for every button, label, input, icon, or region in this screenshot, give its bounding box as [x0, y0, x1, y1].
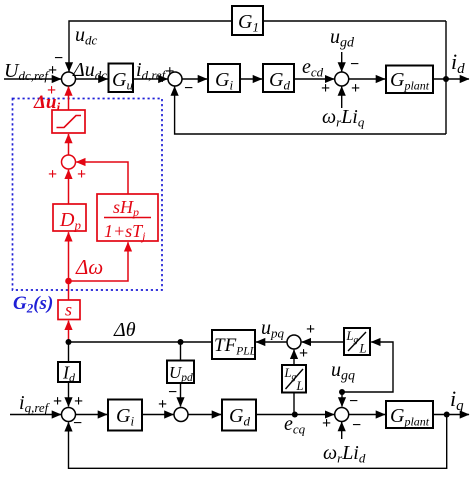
wire sHp output into C red [76, 162, 128, 194]
block s [58, 300, 80, 320]
block sHp/(1+sTj) [97, 194, 158, 243]
wire omega_r L i_q into S3 [341, 87, 343, 109]
node Delta-theta left [66, 339, 72, 345]
svg-text:−: − [349, 393, 358, 410]
node e_cq [292, 412, 298, 418]
wire Lg/L lower to u_pq circle [293, 350, 295, 365]
wire Delta-theta to I_d [68, 342, 70, 362]
wire Gplant to output i_d [433, 78, 469, 80]
svg-text:+: + [48, 166, 57, 183]
svg-text:L: L [359, 342, 367, 356]
summing junction red C [62, 155, 76, 169]
svg-text:+: + [306, 321, 315, 338]
svg-text:−: − [184, 80, 193, 97]
block G_plant bottom [386, 401, 433, 429]
wire limiter to S1 red [68, 87, 70, 111]
wire s block to Delta-omega node red [68, 281, 70, 300]
block G_i bottom [108, 400, 142, 431]
svg-text:−: − [73, 415, 82, 432]
wire bottom feedback to S4 [69, 415, 447, 469]
summing junction u_pq [287, 335, 301, 349]
svg-text:−: − [168, 384, 177, 401]
wire omega_r L i_d into S6 [341, 422, 343, 439]
node Delta-theta right [178, 339, 184, 345]
wire i_q,ref input [10, 414, 61, 416]
wire Gd to S6 [256, 414, 334, 416]
wire inner feedback to S2 [175, 87, 446, 135]
block Lg/L lower [282, 365, 306, 393]
summing junction S5 [174, 408, 188, 422]
svg-text:+: + [322, 415, 331, 432]
block Lg/L right [344, 328, 370, 356]
summing junction S3 [335, 72, 349, 86]
svg-text:−: − [54, 50, 63, 67]
wire U_pd to S5 [180, 383, 182, 407]
block G_d bottom [222, 400, 256, 431]
svg-text:s: s [65, 300, 72, 320]
wire u_gq branch up to Lg/L right [342, 342, 393, 392]
wire u_gq down into S6 [341, 392, 343, 407]
block G_u [109, 64, 134, 93]
wire S1 to Gu [75, 78, 108, 80]
wire Dp to C red [68, 170, 70, 204]
wire right vertical feedback [445, 21, 447, 134]
svg-text:+: + [53, 393, 62, 410]
wire top feedback right of G1 [263, 20, 446, 22]
wire S3 to Gplant [348, 78, 385, 80]
block G_i top [208, 64, 240, 93]
dashed box G2 [13, 99, 163, 291]
svg-text:+: + [351, 80, 360, 97]
wire Gu to S2 [133, 78, 168, 80]
svg-text:−: − [350, 56, 359, 73]
wire Delta-omega to sHp red [69, 242, 129, 281]
wire I_d to S4 [68, 382, 70, 407]
block G_plant top [386, 66, 433, 94]
summing junction S1 [62, 72, 76, 86]
svg-text:+: + [74, 393, 83, 410]
wire u_pq circle to TF_PLL [256, 341, 288, 343]
summing junction S6 [335, 408, 349, 422]
wire Gi to S5 [142, 414, 174, 416]
svg-text:+: + [299, 345, 308, 362]
block G_d top [263, 64, 294, 93]
block D_p [53, 204, 86, 233]
wire top feedback left of G1 [69, 21, 232, 72]
node Delta-omega red [65, 278, 72, 285]
block I_d [58, 362, 80, 385]
node i_q [444, 412, 450, 418]
wire Delta-omega to Dp red [68, 232, 70, 281]
wire S5 to Gd bottom [188, 414, 222, 416]
wire U_dc,ref input [4, 78, 61, 80]
wire e_cq node to Lg/L lower [293, 393, 295, 415]
wire S2 to Gi [182, 78, 208, 80]
wire Delta-theta node to s block red [68, 321, 70, 342]
node u_gq [339, 389, 345, 395]
svg-text:G2(s): G2(s) [13, 293, 53, 316]
block U_pd [167, 361, 194, 385]
wire Delta-theta to U_pd [180, 342, 182, 361]
node i_d [443, 76, 449, 82]
wire S4 to Gi bottom [75, 414, 107, 416]
block G_1 [232, 6, 263, 35]
svg-text:−: − [352, 417, 361, 434]
wire u_gd into S3 [341, 52, 343, 72]
wire Gplant to output i_q [433, 414, 469, 416]
wire red summing circle to limiter [68, 134, 70, 156]
svg-text:1+sTj: 1+sTj [104, 221, 146, 243]
svg-text:Δω: Δω [75, 255, 103, 279]
summing junction S4 [62, 408, 76, 422]
wire S6 to Gplant bottom [348, 414, 385, 416]
svg-text:+: + [77, 166, 86, 183]
wire Gd to S3 [294, 78, 334, 80]
limiter block (saturation) [52, 110, 85, 133]
svg-text:+: + [158, 396, 167, 413]
svg-text:Δθ: Δθ [113, 319, 136, 341]
wire Delta-theta row [69, 341, 213, 343]
block TF_PLL [212, 330, 256, 359]
summing junction S2 [168, 72, 182, 86]
svg-text:L: L [296, 379, 304, 393]
wire Lg/L right to u_pq circle [302, 341, 344, 343]
wire Gi to Gd [240, 78, 262, 80]
svg-text:+: + [321, 80, 330, 97]
